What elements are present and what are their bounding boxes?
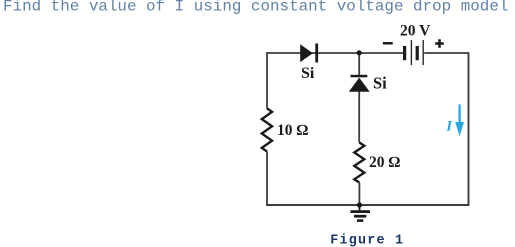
wire bottom — [266, 204, 469, 206]
battery thick plate 2 — [416, 46, 419, 60]
svg-text:10 Ω: 10 Ω — [277, 122, 308, 139]
diode D2 triangle — [349, 78, 370, 92]
plus sign — [435, 39, 444, 48]
resistor R2 zigzag — [354, 143, 364, 183]
svg-text:20 Ω: 20 Ω — [369, 154, 400, 171]
ground bar 1 — [351, 210, 371, 213]
resistor R1 zigzag — [262, 108, 272, 151]
svg-text:Figure 1: Figure 1 — [330, 234, 404, 247]
node junction top — [357, 50, 362, 55]
wire middle branch lower — [358, 183, 360, 206]
diode D1 cathode bar — [315, 44, 318, 63]
ground bar 3 — [357, 219, 363, 222]
wire left branch — [266, 52, 268, 108]
diode D1 triangle — [300, 44, 313, 62]
battery thin plate 1 — [410, 40, 412, 65]
svg-text:Si: Si — [301, 65, 315, 82]
svg-text:Find the value of I using cons: Find the value of I using constant volta… — [3, 0, 508, 16]
wire right branch — [468, 52, 470, 206]
battery thick plate 1 — [403, 46, 406, 60]
ground stub — [359, 205, 361, 210]
current arrow I — [458, 105, 460, 125]
wire middle branch upper — [358, 53, 360, 75]
diode D2 cathode bar — [351, 75, 368, 78]
minus sign — [383, 42, 393, 45]
wire top-left to battery — [267, 52, 403, 54]
wire battery to top-right corner — [424, 52, 468, 54]
battery thin plate 2 — [422, 40, 424, 65]
svg-text:Si: Si — [373, 73, 387, 92]
svg-text:20 V: 20 V — [400, 23, 431, 40]
svg-text:I: I — [445, 119, 453, 135]
wire middle branch mid — [358, 92, 360, 143]
node junction bottom — [357, 202, 362, 207]
ground bar 2 — [354, 215, 366, 218]
wire left branch lower — [266, 152, 268, 206]
